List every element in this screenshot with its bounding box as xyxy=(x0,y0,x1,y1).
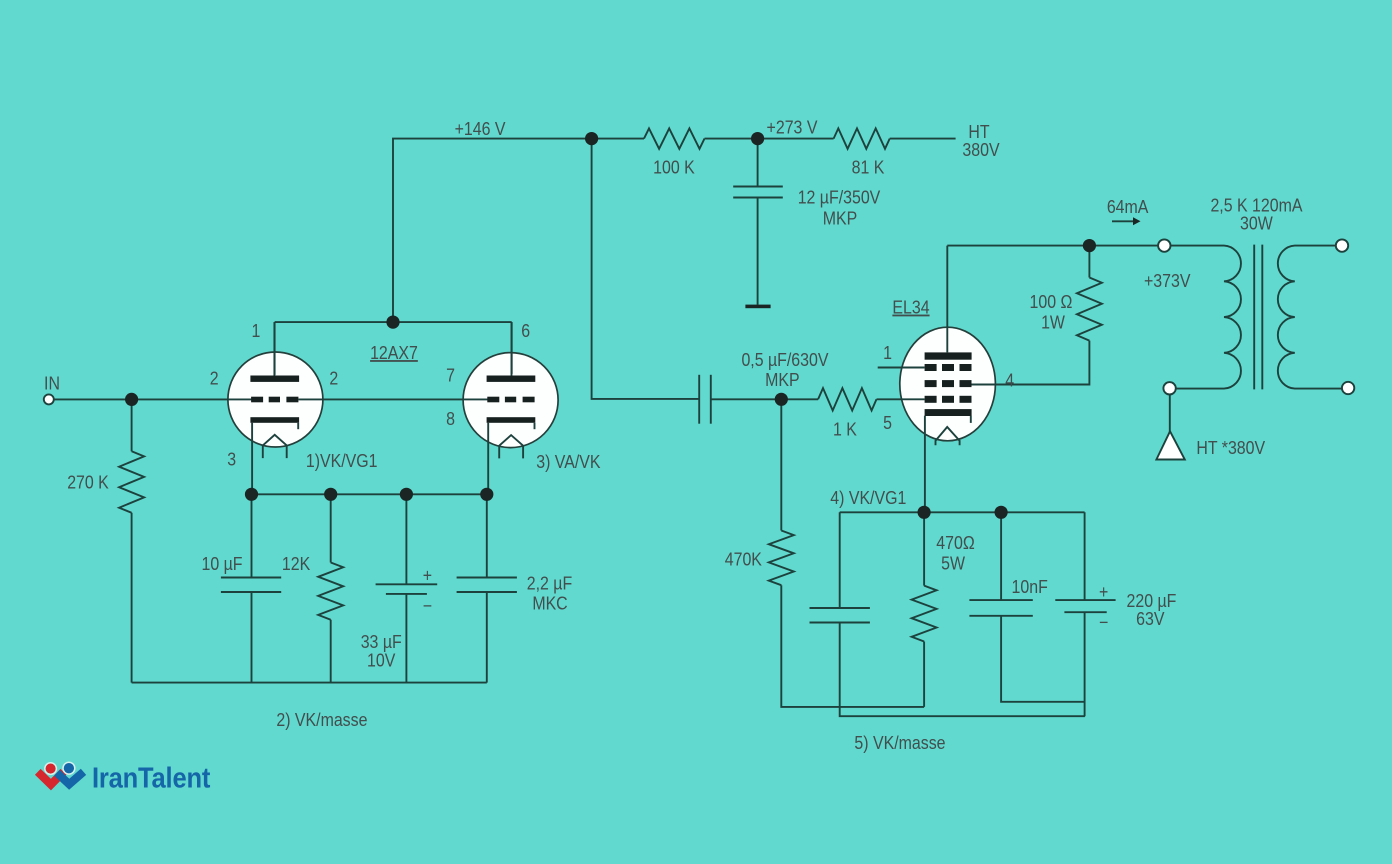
svg-text:10 µF: 10 µF xyxy=(202,554,243,574)
svg-text:0,5 µF/630V: 0,5 µF/630V xyxy=(741,350,829,370)
svg-text:5: 5 xyxy=(883,413,892,433)
svg-text:470Ω: 470Ω xyxy=(936,533,974,553)
svg-text:380V: 380V xyxy=(962,140,1000,160)
svg-text:3: 3 xyxy=(227,450,236,470)
svg-text:+146 V: +146 V xyxy=(455,119,506,139)
svg-text:EL34: EL34 xyxy=(892,298,929,318)
svg-text:2: 2 xyxy=(329,368,338,388)
svg-text:1)VK/VG1: 1)VK/VG1 xyxy=(306,451,378,471)
svg-text:33 µF: 33 µF xyxy=(361,632,402,652)
svg-text:5W: 5W xyxy=(941,554,966,574)
svg-text:2,2 µF: 2,2 µF xyxy=(527,574,572,594)
svg-text:MKP: MKP xyxy=(823,209,857,229)
svg-text:81 K: 81 K xyxy=(852,158,885,178)
svg-text:12K: 12K xyxy=(282,554,311,574)
svg-text:1W: 1W xyxy=(1041,313,1066,333)
svg-text:MKP: MKP xyxy=(765,370,799,390)
svg-text:5) VK/masse: 5) VK/masse xyxy=(854,733,945,753)
svg-text:64mA: 64mA xyxy=(1107,197,1149,217)
svg-text:6: 6 xyxy=(521,321,530,341)
svg-text:MKC: MKC xyxy=(532,594,567,614)
svg-text:10nF: 10nF xyxy=(1012,577,1048,597)
svg-text:−: − xyxy=(1099,613,1108,633)
svg-text:100 K: 100 K xyxy=(653,158,695,178)
svg-text:1 K: 1 K xyxy=(833,419,857,439)
svg-text:470K: 470K xyxy=(725,550,763,570)
svg-text:8: 8 xyxy=(446,409,455,429)
svg-text:3) VA/VK: 3) VA/VK xyxy=(536,452,601,472)
svg-text:−: − xyxy=(423,596,432,616)
svg-text:+: + xyxy=(423,565,432,585)
svg-text:+273 V: +273 V xyxy=(767,118,818,138)
svg-text:12 µF/350V: 12 µF/350V xyxy=(798,188,881,208)
svg-text:+: + xyxy=(1099,582,1108,602)
svg-text:4) VK/VG1: 4) VK/VG1 xyxy=(830,488,906,508)
svg-text:270 K: 270 K xyxy=(67,473,109,493)
svg-text:7: 7 xyxy=(446,366,455,386)
svg-text:IranTalent: IranTalent xyxy=(92,761,210,794)
svg-text:10V: 10V xyxy=(367,651,396,671)
svg-text:100 Ω: 100 Ω xyxy=(1030,292,1073,312)
svg-text:12AX7: 12AX7 xyxy=(370,343,418,363)
svg-text:IN: IN xyxy=(44,374,60,394)
svg-text:+373V: +373V xyxy=(1144,271,1191,291)
svg-text:2: 2 xyxy=(210,368,219,388)
svg-text:1: 1 xyxy=(883,343,892,363)
svg-text:30W: 30W xyxy=(1240,214,1274,234)
svg-text:63V: 63V xyxy=(1136,609,1165,629)
svg-text:1: 1 xyxy=(252,321,261,341)
svg-text:2) VK/masse: 2) VK/masse xyxy=(276,710,367,730)
svg-text:4: 4 xyxy=(1005,370,1014,390)
svg-text:HT *380V: HT *380V xyxy=(1196,438,1265,458)
